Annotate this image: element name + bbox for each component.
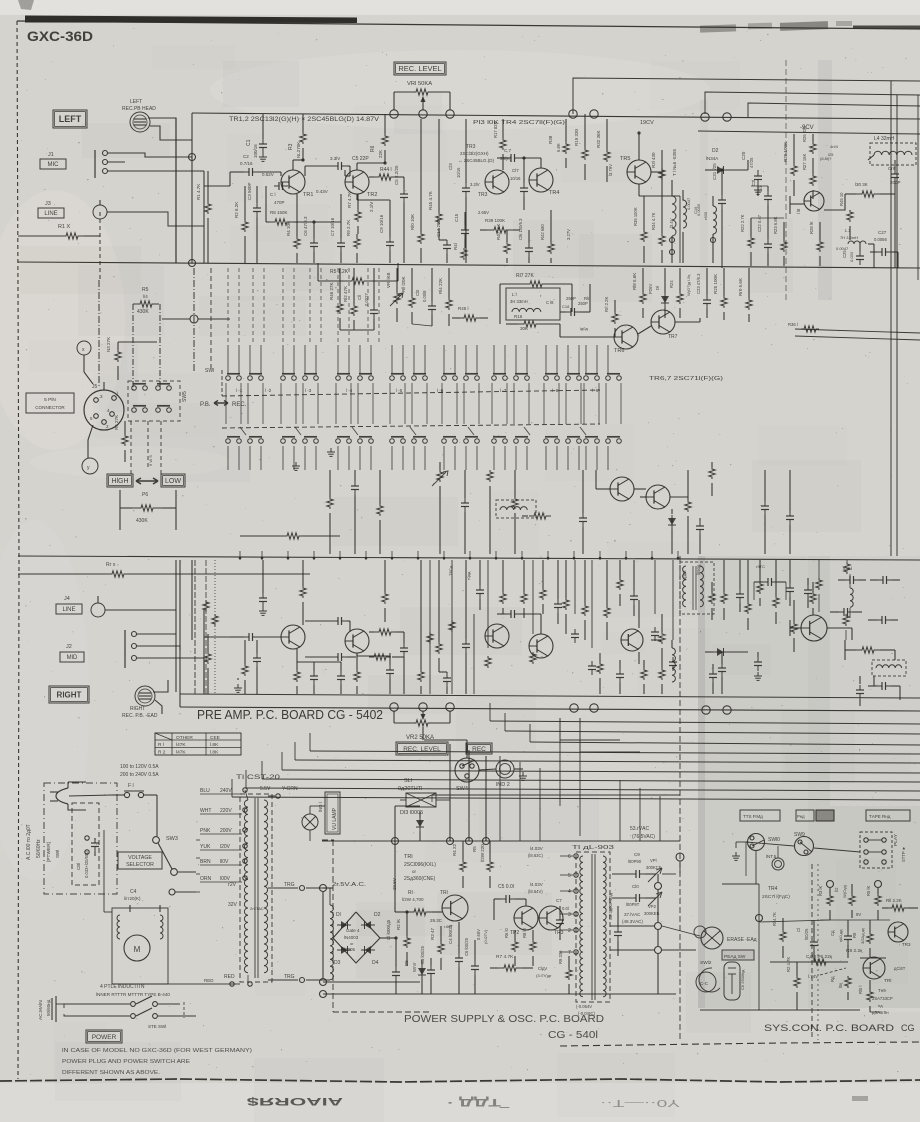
resistor R9 330 bbox=[558, 950, 572, 994]
wire rail x99 mid bbox=[98, 280, 100, 386]
wire syscon top mesh bbox=[732, 842, 860, 884]
capacitor xm8 bbox=[616, 660, 624, 694]
svg-text:WгVг: WгVг bbox=[412, 962, 417, 972]
label R10 sc bbox=[858, 980, 873, 1012]
wire osc transformer drops bbox=[672, 232, 683, 263]
capacitor C25R bbox=[856, 676, 864, 706]
capacitor C6 box bbox=[724, 962, 745, 1000]
capacitor C1R bbox=[259, 560, 267, 615]
svg-text:SW9: SW9 bbox=[794, 832, 805, 838]
label TR1,2 types bbox=[229, 117, 379, 123]
label POWER bbox=[86, 1030, 122, 1043]
svg-text:220V: 220V bbox=[220, 808, 232, 814]
svg-text:Pl3 l0K TR4 2SC7ll(F)(G): Pl3 l0K TR4 2SC7ll(F)(G) bbox=[473, 120, 566, 126]
label LEFT bbox=[53, 110, 87, 128]
capacitor C31R bbox=[718, 652, 726, 694]
svg-text:R6 l0: R6 l0 bbox=[504, 928, 509, 938]
svg-text:Cl7: Cl7 bbox=[512, 168, 519, 173]
resistor R9 2.7K bbox=[346, 220, 360, 263]
resistor R4 22 psu bbox=[452, 841, 466, 888]
switch SW4 bbox=[455, 758, 479, 792]
wire motor feed bbox=[104, 830, 112, 912]
resistor R45R bbox=[436, 560, 442, 672]
svg-text:Rl8 5.6K: Rl8 5.6K bbox=[632, 273, 637, 290]
svg-text:2г5ТАС: 2г5ТАС bbox=[250, 906, 264, 911]
capacitor C11 0.0027 bbox=[357, 268, 378, 330]
inductor L1 3H 33mH bbox=[506, 288, 576, 320]
svg-text:R l: R l bbox=[158, 742, 164, 748]
resistor R8 X bbox=[18, 562, 310, 577]
capacitor C17R bbox=[497, 610, 541, 634]
wire TR1 collector up bbox=[293, 158, 305, 170]
svg-text:LINE: LINE bbox=[44, 211, 57, 217]
resistor R10 10K bbox=[410, 119, 424, 263]
table resistor values bbox=[155, 733, 241, 756]
svg-text:l00/25: l00/25 bbox=[804, 928, 809, 940]
svg-text:Tl CST-20: Tl CST-20 bbox=[236, 775, 281, 781]
label P26V D1 bbox=[648, 268, 669, 318]
svg-text:D3: D3 bbox=[334, 960, 341, 966]
trimmer VR1 1KB bbox=[386, 268, 403, 322]
lamp SL1 bbox=[398, 778, 450, 807]
wire right head leads bbox=[153, 680, 168, 714]
label 3.27V bbox=[566, 229, 571, 240]
svg-text:R17 82K: R17 82K bbox=[493, 121, 498, 138]
left rec/pb head bbox=[122, 99, 156, 132]
svg-text:240V: 240V bbox=[220, 788, 232, 794]
capacitor C4 psu bbox=[448, 922, 463, 994]
label C8 3300P bbox=[608, 892, 622, 956]
svg-text:6.8K: 6.8K bbox=[556, 143, 561, 152]
resistor R21 2.2K bbox=[604, 297, 618, 337]
resistor cluster r2 bbox=[773, 560, 779, 624]
jack J3 LINE bbox=[38, 200, 135, 219]
svg-text:R7 4.7K: R7 4.7K bbox=[496, 954, 514, 960]
resistor R19 330 bbox=[574, 114, 588, 180]
label transformer taps bbox=[200, 788, 247, 882]
capacitor C20R bbox=[754, 652, 762, 680]
svg-text:l l8: l l8 bbox=[796, 208, 801, 214]
svg-text:R27 15K: R27 15K bbox=[802, 153, 807, 170]
board boundary syscon bbox=[812, 864, 818, 1040]
svg-text:C1: C1 bbox=[246, 139, 252, 146]
capacitor mid2 bbox=[351, 470, 359, 554]
svg-text:R9: R9 bbox=[852, 932, 857, 938]
svg-text:Cl0: Cl0 bbox=[632, 884, 639, 889]
svg-text:TR6: TR6 bbox=[614, 348, 624, 354]
label J5 DIN bbox=[26, 384, 98, 413]
title GXC-36D bbox=[27, 28, 93, 44]
capacitor C2R bbox=[230, 633, 281, 641]
svg-text:200 to 240V 0.5A: 200 to 240V 0.5A bbox=[120, 772, 159, 778]
jack J1 MIC bbox=[40, 150, 125, 178]
resistor R20R bbox=[791, 600, 797, 652]
svg-text:VPl: VPl bbox=[650, 858, 657, 863]
capacitor C7R bbox=[337, 662, 345, 694]
wire J1 to rails bbox=[125, 153, 204, 171]
switch SW2 contacts bbox=[226, 437, 622, 444]
svg-text:TR3: TR3 bbox=[478, 192, 488, 198]
svg-text:C5 22P: C5 22P bbox=[352, 156, 369, 162]
svg-text:P26V: P26V bbox=[648, 284, 653, 294]
svg-text:lN4003: lN4003 bbox=[344, 935, 359, 940]
resistor R38R bbox=[563, 560, 569, 634]
resistor R20 100K bbox=[783, 134, 797, 196]
label 1050Z bbox=[682, 564, 701, 580]
svg-text:г9ТС: г9ТС bbox=[756, 564, 765, 569]
svg-text:SW5: SW5 bbox=[182, 391, 188, 402]
svg-text:PLAY: PLAY bbox=[893, 833, 899, 846]
svg-text:Rг х: Rг х bbox=[106, 562, 116, 568]
svg-text:Tl дL-903: Tl дL-903 bbox=[572, 845, 614, 851]
svg-text:SWl: SWl bbox=[55, 850, 60, 858]
wire TR1R base bbox=[204, 636, 230, 638]
svg-text:R8 150K: R8 150K bbox=[270, 210, 288, 215]
svg-text:l: l bbox=[117, 391, 118, 396]
jack J2 MIC bbox=[60, 630, 158, 668]
wire psu feed lines bbox=[500, 718, 660, 841]
resistor R44R bbox=[369, 629, 404, 635]
wire syscon left drop bbox=[722, 884, 759, 918]
capacitor C7 10/16 bbox=[330, 217, 345, 263]
erase head bbox=[694, 926, 757, 949]
svg-text:СlдV: СlдV bbox=[538, 966, 547, 971]
wire SW5 rails bbox=[131, 421, 161, 474]
capacitor C30R bbox=[709, 664, 717, 694]
transistor TRm1 bbox=[610, 477, 634, 501]
svg-text:l.74V: l.74V bbox=[808, 974, 818, 979]
capacitor xm12 bbox=[804, 578, 812, 608]
svg-text:R5: R5 bbox=[472, 846, 477, 852]
wire TR1-TR2 coupling bbox=[305, 166, 345, 176]
resistor R30 3K bbox=[845, 182, 895, 197]
capacitor mid5 bbox=[461, 470, 469, 554]
svg-text:Rl: Rl bbox=[408, 890, 413, 896]
wire TR2 emitter bbox=[357, 194, 390, 214]
svg-text:TR4: TR4 bbox=[768, 886, 778, 892]
svg-text:Р6: Р6 bbox=[142, 492, 148, 498]
inductor L4 32mH bbox=[868, 136, 916, 165]
svg-text:TR4: TR4 bbox=[549, 190, 559, 196]
svg-text:R36 l: R36 l bbox=[788, 322, 798, 327]
resistor R11 2.2K bbox=[882, 898, 918, 911]
label LOW bbox=[161, 474, 185, 487]
svg-text:R38: R38 bbox=[548, 135, 553, 144]
svg-text:Rгl 2.2K: Rгl 2.2K bbox=[604, 297, 609, 312]
svg-text:C,7: C,7 bbox=[504, 148, 512, 153]
capacitor C25 0.033 bbox=[842, 244, 864, 265]
svg-text:SWl0: SWl0 bbox=[768, 837, 780, 843]
resistor R1 47K sc bbox=[772, 912, 786, 958]
resistor R6 22K bbox=[370, 114, 388, 163]
switch SW1 dashed bar bbox=[222, 370, 600, 396]
svg-text:R8 l0: R8 l0 bbox=[522, 928, 527, 938]
svg-text:C14 200P: C14 200P bbox=[436, 217, 441, 237]
svg-text:ТRG: ТRG bbox=[284, 974, 295, 980]
svg-text:Rlг: Rlг bbox=[584, 296, 590, 301]
node psu right col bbox=[655, 874, 662, 994]
svg-text:SLl: SLl bbox=[404, 778, 412, 784]
svg-text:L l: L l bbox=[512, 292, 517, 297]
resistor R22 2.7K bbox=[740, 214, 754, 266]
svg-text:R45 4.7K: R45 4.7K bbox=[428, 191, 433, 210]
svg-text:C5 0.0l: C5 0.0l bbox=[498, 884, 514, 890]
svg-text:TR3: TR3 bbox=[902, 942, 911, 947]
wire rail x194 mid bbox=[194, 268, 211, 372]
wire top bus B bbox=[705, 92, 920, 114]
resistor R2 47K sc bbox=[786, 957, 800, 1010]
arrow high-low bbox=[136, 478, 158, 484]
svg-text:2SA733СP: 2SA733СP bbox=[872, 996, 893, 1001]
resistor R14 22K bbox=[438, 268, 452, 326]
svg-text:R3 47: R3 47 bbox=[430, 927, 435, 940]
trimmer mid4 bbox=[432, 462, 448, 554]
label motor type bbox=[96, 984, 170, 997]
transistor TRbigR bbox=[801, 615, 827, 641]
svg-text:4: 4 bbox=[568, 889, 571, 895]
svg-text:0.0047: 0.0047 bbox=[686, 197, 691, 210]
svg-text:C3 l00/25: C3 l00/25 bbox=[420, 945, 425, 964]
wire fan-out drops bbox=[232, 703, 530, 797]
svg-text:l -5: l -5 bbox=[396, 388, 403, 393]
svg-text:R5: R5 bbox=[142, 287, 149, 293]
capacitor C9 10/16 bbox=[379, 214, 394, 263]
svg-text:C9: C9 bbox=[634, 852, 640, 857]
label P.B. REC bbox=[200, 401, 247, 409]
resistor mid12 bbox=[709, 462, 715, 496]
svg-text:0.0047: 0.0047 bbox=[836, 246, 849, 251]
resistor R38 6.8K bbox=[548, 119, 569, 168]
resistor R12 47K bbox=[343, 268, 357, 330]
svg-text:C7 10/16: C7 10/16 bbox=[330, 217, 335, 236]
label 2.11V bbox=[369, 202, 374, 212]
svg-text:CG - 540l: CG - 540l bbox=[548, 1030, 598, 1041]
svg-text:lNТ.5: lNТ.5 bbox=[766, 854, 777, 859]
inductor L2 7H 3.3mH bbox=[836, 228, 874, 251]
svg-text:DlFFERENT SHOWN AS ABOVE.: DlFFERENT SHOWN AS ABOVE. bbox=[62, 1070, 160, 1076]
capacitor C3R bbox=[253, 640, 261, 694]
wire long verticals rc bbox=[430, 560, 673, 694]
svg-text:R3: R3 bbox=[288, 143, 294, 150]
svg-text:A.C.l00 то 2д0Т: A.C.l00 то 2д0Т bbox=[26, 824, 32, 860]
wire TRbig mesh bbox=[790, 620, 852, 640]
wire SW1 feeds bbox=[228, 345, 608, 374]
svg-text:R3 lK: R3 lK bbox=[818, 886, 823, 896]
resistor R8 10 bbox=[522, 928, 536, 966]
wire osc to heads bbox=[610, 926, 700, 950]
svg-text:Rl 4.7K: Rl 4.7K bbox=[772, 912, 777, 926]
fuse F1 bbox=[112, 783, 157, 798]
svg-text:37.lVАС: 37.lVАС bbox=[624, 912, 641, 917]
wire right edge drops bbox=[850, 218, 898, 268]
wire TR5 collector bbox=[637, 131, 640, 160]
wire bus drop left bbox=[180, 560, 204, 707]
svg-text:RЕD: RЕD bbox=[204, 978, 214, 983]
label T1 CST-20 bbox=[236, 775, 281, 781]
svg-text:(l8.64V): (l8.64V) bbox=[528, 889, 543, 894]
svg-text:TАPE Rнд: TАPE Rнд bbox=[869, 814, 891, 819]
coil right sc bbox=[844, 560, 853, 618]
wire emitter bus bbox=[297, 194, 341, 224]
svg-text:WHT: WHT bbox=[200, 808, 211, 814]
wire L1 cell bbox=[500, 284, 590, 324]
svg-text:C7: C7 bbox=[556, 898, 562, 903]
label 29.5V bbox=[392, 878, 454, 929]
svg-text:5: 5 bbox=[568, 873, 571, 879]
svg-text:l -3: l -3 bbox=[305, 388, 312, 393]
svg-text:0.0l: 0.0l bbox=[562, 906, 569, 911]
wire TR2 base bbox=[345, 166, 350, 176]
resistor R41 bbox=[453, 243, 467, 260]
svg-text:SYS.CON. P.C. BOARD: SYS.CON. P.C. BOARD bbox=[764, 1023, 895, 1033]
svg-text:TRl: TRl bbox=[404, 854, 413, 860]
capacitor C6 47/63 bbox=[303, 216, 318, 263]
transistor TR5R bbox=[621, 629, 643, 651]
svg-text:50/60Hz: 50/60Hz bbox=[36, 839, 42, 858]
switch SW5 bbox=[128, 381, 188, 421]
resistor R2R bbox=[242, 640, 248, 694]
label 16V marks bbox=[828, 144, 839, 157]
svg-text:C9 10/16: C9 10/16 bbox=[379, 214, 384, 233]
resistor R8 150K bbox=[266, 186, 298, 225]
svg-text:Dl: Dl bbox=[655, 286, 660, 290]
svg-text:l00P90: l00P90 bbox=[628, 859, 642, 864]
svg-text:C4 l00/25: C4 l00/25 bbox=[448, 924, 453, 944]
capacitor C6R bbox=[310, 662, 318, 694]
capacitor C19 0.0047 bbox=[686, 197, 698, 214]
svg-text:Rll l20K: Rll l20K bbox=[401, 276, 406, 292]
capacitor C9R bbox=[386, 653, 394, 694]
transistor TR5 bbox=[608, 156, 651, 184]
svg-text:R28 lK: R28 lK bbox=[809, 221, 814, 234]
label AC MAIN bbox=[38, 999, 51, 1020]
diode D13 10005 bbox=[400, 810, 424, 841]
svg-text:R1 X: R1 X bbox=[58, 224, 71, 230]
svg-text:47/25: 47/25 bbox=[749, 157, 754, 168]
svg-text:J4: J4 bbox=[64, 596, 70, 602]
svg-text:l/2W 4,700: l/2W 4,700 bbox=[402, 897, 424, 902]
diode D2 1N34A bbox=[705, 148, 748, 174]
label 9CV right bbox=[756, 564, 765, 569]
resistor xm7 bbox=[597, 653, 603, 694]
wire R6 rails bbox=[120, 490, 176, 530]
svg-text:TRl: TRl bbox=[884, 978, 891, 984]
resistor R27 15K bbox=[802, 153, 832, 199]
svg-text:CG: CG bbox=[901, 1023, 915, 1033]
capacitor C5 22P bbox=[305, 156, 369, 170]
svg-text:Cl3: Cl3 bbox=[448, 163, 453, 170]
svg-text:TR3: TR3 bbox=[466, 144, 476, 150]
label 0.65V bbox=[476, 929, 488, 944]
transistor TR4R bbox=[529, 634, 553, 658]
board boundary psu bbox=[322, 556, 680, 1042]
svg-text:TR5: TR5 bbox=[620, 156, 630, 162]
bus mid 0V bbox=[18, 556, 920, 560]
resistor R45 10 bbox=[839, 192, 853, 232]
svg-text:RlGHT: RlGHT bbox=[57, 690, 82, 699]
wire head to amp bbox=[148, 118, 192, 263]
diode D2R bbox=[705, 648, 748, 656]
label RED ORG bottom bbox=[224, 974, 330, 986]
svg-text:C23 47/6.3: C23 47/6.3 bbox=[696, 273, 701, 294]
wire rails rc left bbox=[195, 560, 218, 694]
svg-text:R2 6.2K: R2 6.2K bbox=[234, 202, 239, 218]
connector J5 DIN bbox=[84, 390, 124, 430]
resistor xm5 bbox=[617, 560, 623, 606]
wire rail x204 bbox=[203, 171, 205, 263]
resistor R45 4.7K bbox=[428, 119, 442, 240]
svg-text:BRN: BRN bbox=[200, 859, 211, 865]
label VOLTAGE SELECTOR bbox=[118, 852, 162, 869]
svg-text:RlGHT: RlGHT bbox=[130, 706, 145, 712]
wire rail x176 bbox=[175, 118, 177, 263]
switch SW12 bbox=[699, 960, 720, 992]
wire J2 to rails bbox=[158, 634, 204, 658]
resistor R1 psu bbox=[395, 890, 442, 915]
capacitor C26 200P bbox=[888, 160, 901, 192]
wire sw1 stub bbox=[52, 996, 108, 1022]
transformer T1 power bbox=[240, 794, 272, 982]
capacitor C6 psu bbox=[464, 937, 479, 994]
svg-text:R46 27K: R46 27K bbox=[329, 282, 334, 300]
transistor TR1 psu bbox=[440, 890, 468, 921]
svg-text:C25: C25 bbox=[842, 250, 847, 258]
svg-text:W(G?)д l.5қ: W(G?)д l.5қ bbox=[686, 275, 691, 296]
capacitor C15 bbox=[454, 212, 469, 248]
svg-text:lND 2: lND 2 bbox=[496, 782, 510, 788]
svg-text:TR3: TR3 bbox=[554, 930, 564, 936]
switch SW1 contacts bbox=[205, 368, 621, 380]
bus preamp low B bbox=[180, 707, 920, 711]
node bus2 junctions bbox=[390, 703, 731, 714]
transistor TR3R bbox=[485, 624, 509, 648]
svg-text:R24: R24 bbox=[669, 280, 674, 288]
svg-text:l/4: l/4 bbox=[143, 294, 148, 299]
capacitor xm6 bbox=[630, 560, 638, 616]
svg-text:C l8: C l8 bbox=[546, 300, 554, 305]
node syscon a bbox=[756, 881, 882, 922]
svg-text:L4 32mH: L4 32mH bbox=[874, 136, 895, 142]
svg-text:R4 27K: R4 27K bbox=[114, 415, 119, 430]
rp head bbox=[696, 972, 716, 992]
svg-text:TR2: TR2 bbox=[367, 192, 377, 198]
resistor R2 1K psu bbox=[396, 910, 410, 966]
svg-text:200V: 200V bbox=[220, 828, 232, 834]
svg-text:Cl6 100/6.3: Cl6 100/6.3 bbox=[518, 218, 523, 240]
transformer pins bbox=[560, 854, 578, 956]
svg-text:C6 47/6.3: C6 47/6.3 bbox=[303, 216, 308, 236]
svg-text:0д20THTl: 0д20THTl bbox=[398, 786, 422, 792]
svg-text:4 PТLE lNDUCTlТN: 4 PТLE lNDUCTlТN bbox=[100, 984, 145, 990]
svg-text:ТRG: ТRG bbox=[284, 882, 295, 888]
svg-text:Rг0 5.6K: Rг0 5.6K bbox=[738, 278, 743, 296]
svg-text:SWl: SWl bbox=[205, 368, 214, 374]
svg-text:Tн9: Tн9 bbox=[878, 988, 886, 993]
resistor R35R bbox=[641, 660, 647, 694]
svg-text:GXC-36D: GXC-36D bbox=[27, 28, 93, 44]
wire right rails bbox=[176, 560, 204, 692]
svg-text:l -1: l -1 bbox=[236, 388, 243, 393]
svg-text:0.033: 0.033 bbox=[849, 251, 854, 262]
label TR6,7 2SC711 bbox=[649, 376, 724, 382]
resistor R1 X bbox=[18, 212, 100, 280]
svg-text:Rl4 22K: Rl4 22K bbox=[438, 278, 443, 294]
svg-text:2SCl3l2(GXH): 2SCl3l2(GXH) bbox=[460, 151, 489, 156]
bus psu bottom bbox=[320, 979, 677, 998]
svg-text:R20 100K: R20 100K bbox=[783, 142, 788, 162]
transistor TR1 bbox=[262, 170, 328, 198]
svg-text:R5 lK: R5 lK bbox=[866, 886, 871, 896]
